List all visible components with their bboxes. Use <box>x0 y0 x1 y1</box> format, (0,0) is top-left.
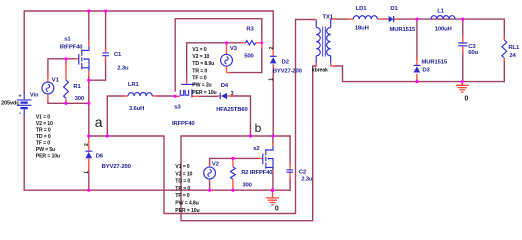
svg-text:MUR1515: MUR1515 <box>422 59 448 65</box>
svg-text:HFA25TB60: HFA25TB60 <box>216 107 248 113</box>
svg-text:500: 500 <box>244 54 254 60</box>
svg-text:D2: D2 <box>282 59 290 65</box>
svg-text:60u: 60u <box>468 50 478 56</box>
svg-text:D1: D1 <box>390 6 398 12</box>
svg-text:LR1: LR1 <box>128 82 140 88</box>
svg-text:BYV27-200: BYV27-200 <box>102 164 132 170</box>
svg-text:TD = 0: TD = 0 <box>175 179 190 185</box>
svg-text:-: - <box>19 111 21 117</box>
svg-text:V2 = 10: V2 = 10 <box>175 171 192 177</box>
svg-text:R3: R3 <box>246 27 254 33</box>
svg-text:IRFPF40: IRFPF40 <box>60 45 83 51</box>
svg-text:PER = 10u: PER = 10u <box>175 208 199 214</box>
svg-text:TD = 0: TD = 0 <box>36 134 51 140</box>
svg-text:C2: C2 <box>299 169 307 175</box>
svg-text:PER = 10u: PER = 10u <box>192 90 216 96</box>
svg-text:PW = 5u: PW = 5u <box>36 147 55 153</box>
svg-text:s3: s3 <box>174 104 181 110</box>
svg-text:PER = 10u: PER = 10u <box>36 154 60 160</box>
svg-text:+: + <box>19 94 22 100</box>
svg-text:BYV27-200: BYV27-200 <box>273 68 303 74</box>
svg-text:0: 0 <box>464 96 468 103</box>
svg-text:Vin: Vin <box>30 93 39 99</box>
svg-text:3.6uH: 3.6uH <box>129 106 144 112</box>
svg-text:C1: C1 <box>114 52 122 58</box>
svg-text:2: 2 <box>269 46 275 49</box>
svg-text:V1 = 0: V1 = 0 <box>36 115 51 121</box>
svg-text:s1: s1 <box>64 37 71 43</box>
svg-text:D4: D4 <box>221 83 229 89</box>
svg-text:PW = 2u: PW = 2u <box>192 83 211 89</box>
svg-text:V1: V1 <box>52 77 60 83</box>
svg-text:TX1: TX1 <box>323 14 334 20</box>
svg-text:1: 1 <box>269 78 275 81</box>
svg-text:D6: D6 <box>96 154 104 160</box>
svg-text:s2: s2 <box>253 146 260 152</box>
svg-text:0: 0 <box>275 205 279 212</box>
svg-text:205vdc: 205vdc <box>1 100 19 106</box>
svg-text:V2 = 10: V2 = 10 <box>192 54 209 60</box>
svg-text:LD1: LD1 <box>356 6 368 12</box>
svg-text:3: 3 <box>231 91 234 97</box>
svg-text:2.3u: 2.3u <box>301 176 313 182</box>
svg-text:D3: D3 <box>422 67 430 73</box>
svg-text:V3: V3 <box>230 46 238 52</box>
svg-text:100uH: 100uH <box>435 26 452 32</box>
svg-text:L1: L1 <box>437 9 444 15</box>
svg-text:TR = 0: TR = 0 <box>175 186 190 192</box>
svg-text:300: 300 <box>242 182 252 188</box>
svg-text:PW = 4.8u: PW = 4.8u <box>175 201 198 207</box>
svg-text:MUR1515: MUR1515 <box>390 27 416 33</box>
svg-text:RL1: RL1 <box>508 45 520 51</box>
svg-text:kbreak: kbreak <box>312 67 328 73</box>
svg-text:TF = 0: TF = 0 <box>36 141 50 147</box>
svg-text:b: b <box>255 121 262 135</box>
svg-text:a: a <box>95 114 103 130</box>
svg-text:TD = 8.9u: TD = 8.9u <box>192 61 214 67</box>
svg-text:TR = 0: TR = 0 <box>192 68 207 74</box>
svg-text:24: 24 <box>509 53 516 59</box>
svg-text:R1: R1 <box>73 84 81 90</box>
svg-text:1: 1 <box>84 171 90 174</box>
svg-text:V1 = 0: V1 = 0 <box>175 164 190 170</box>
svg-text:R2 IRFPF40: R2 IRFPF40 <box>241 170 273 176</box>
svg-text:TF = 0: TF = 0 <box>192 76 206 82</box>
svg-text:18uH: 18uH <box>355 25 369 31</box>
svg-text:2: 2 <box>84 143 90 146</box>
svg-text:TF = 0: TF = 0 <box>175 193 189 199</box>
svg-text:2.3u: 2.3u <box>117 66 129 72</box>
svg-text:IRFPF40: IRFPF40 <box>172 121 195 127</box>
svg-text:V1 = 0: V1 = 0 <box>192 47 207 53</box>
svg-text:V2 = 10: V2 = 10 <box>36 121 53 127</box>
svg-text:300: 300 <box>75 96 85 102</box>
svg-text:V2: V2 <box>212 162 220 168</box>
svg-text:TR = 0: TR = 0 <box>36 128 51 134</box>
